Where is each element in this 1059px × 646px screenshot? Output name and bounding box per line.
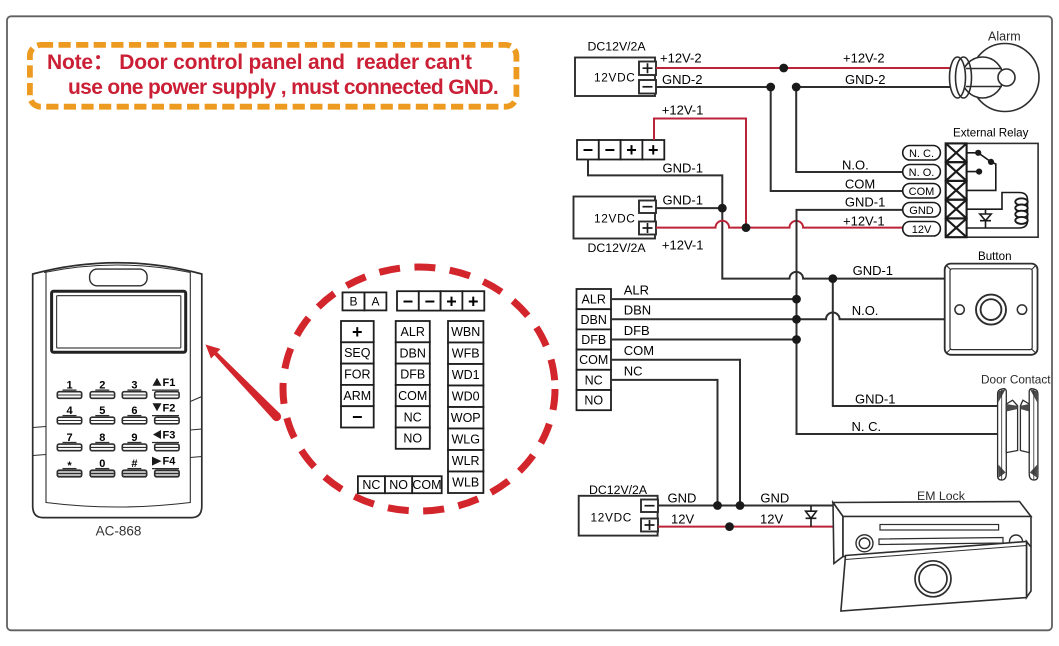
svg-text:12VDC: 12VDC — [591, 511, 633, 525]
wire GND-2 to relay COM — [771, 87, 903, 191]
svg-text:COM: COM — [412, 478, 441, 492]
wire +12V-2 red — [656, 67, 950, 69]
svg-text:Alarm: Alarm — [988, 30, 1021, 44]
svg-text:NC: NC — [362, 478, 380, 492]
svg-text:NO: NO — [403, 432, 422, 446]
junction dot lock GND NC — [713, 501, 722, 510]
power supply U2 12VDC box — [575, 40, 656, 97]
svg-text:NO: NO — [389, 478, 408, 492]
svg-text:WOP: WOP — [451, 411, 481, 425]
keypad left side ticks — [33, 427, 46, 456]
svg-text:DFB: DFB — [581, 333, 606, 347]
door contact switch plate — [998, 389, 1007, 480]
svg-text:GND-1: GND-1 — [855, 392, 895, 407]
key hash — [122, 458, 146, 477]
wire NC to lock GND — [611, 380, 718, 506]
svg-text:GND: GND — [909, 205, 934, 217]
junction dot GND-2 left — [766, 83, 775, 92]
svg-text:FOR: FOR — [344, 368, 370, 382]
junction dot +12V-1 — [742, 223, 751, 232]
key F4 right-arrow — [152, 456, 179, 477]
junction dot +12V-2 — [779, 64, 788, 73]
svg-text:GND-2: GND-2 — [845, 72, 885, 87]
svg-text:WFB: WFB — [452, 347, 480, 361]
svg-text:WLG: WLG — [451, 433, 479, 447]
relay diode — [980, 209, 991, 228]
lock screw right — [1010, 535, 1023, 548]
lock armature side face — [1027, 542, 1032, 598]
power supply U1 12VDC box — [574, 197, 657, 256]
svg-text:WLB: WLB — [452, 476, 479, 490]
svg-text:DFB: DFB — [624, 323, 650, 338]
U2 minus terminal — [639, 80, 656, 94]
svg-text:F1: F1 — [163, 377, 176, 389]
wire button GND-1 to door contact — [833, 279, 997, 406]
wire reader GND-1 — [588, 160, 722, 209]
dashed red highlight circle — [283, 267, 555, 511]
svg-text:+12V-1: +12V-1 — [662, 238, 704, 253]
terminal column plus SEQ FOR ARM minus — [341, 321, 374, 428]
junction dot DBN — [792, 315, 801, 324]
relay oval terminal NO — [903, 165, 941, 180]
U3 plus terminal — [641, 519, 658, 532]
junction dot lock 12V — [725, 522, 734, 531]
svg-text:−: − — [352, 407, 363, 427]
key 4 — [57, 405, 81, 424]
wire GND-1 down to button — [722, 208, 944, 279]
svg-text:+: + — [468, 291, 479, 311]
svg-text:12V: 12V — [912, 224, 932, 236]
wire DFB junction — [611, 339, 797, 341]
relay coil windings — [1015, 198, 1027, 224]
svg-text:−: − — [583, 140, 594, 160]
key F2 down-arrow — [152, 402, 179, 424]
alarm bell — [950, 30, 1040, 112]
svg-text:COM: COM — [909, 186, 935, 198]
wire U1 GND-1 — [656, 207, 722, 209]
keypad speaker slot — [90, 269, 148, 286]
keypad bottom inner arc — [46, 503, 190, 508]
key 9 — [122, 432, 146, 451]
key F3 left-arrow — [152, 430, 179, 451]
svg-text:COM: COM — [398, 389, 427, 403]
key 6 — [122, 405, 146, 424]
svg-text:EM Lock: EM Lock — [917, 489, 966, 503]
wire GND-2 left segment — [656, 86, 771, 88]
key 8 — [90, 432, 114, 451]
U1 plus terminal — [639, 222, 656, 235]
svg-text:NC: NC — [585, 373, 603, 387]
terminal column ALR DBN DFB COM NC NO — [396, 321, 430, 449]
relay terminal X cells — [946, 143, 967, 237]
junction dot DFB — [792, 335, 801, 344]
svg-text:GND-1: GND-1 — [663, 161, 703, 176]
keypad left panel seam — [45, 271, 47, 504]
svg-text:−: − — [604, 140, 615, 160]
terminal block B A — [343, 292, 387, 310]
svg-text:A: A — [371, 295, 379, 309]
door contact magnet plate — [1029, 389, 1038, 480]
key 3 — [122, 380, 146, 399]
red callout arrow shaft — [213, 351, 280, 420]
svg-text:Button: Button — [978, 250, 1012, 263]
key 1 — [57, 380, 81, 399]
svg-text:GND-1: GND-1 — [663, 193, 703, 208]
lock magnet front face — [843, 517, 1031, 557]
svg-text:+: + — [626, 140, 637, 160]
svg-text:Note： Door control panel and: Note： Door control panel and reader can'… — [47, 51, 472, 74]
svg-text:N.O.: N.O. — [842, 158, 869, 173]
power supply U3 12VDC box — [579, 483, 658, 536]
svg-text:WD0: WD0 — [452, 390, 480, 404]
wire U1 +12V-1 red to relay 12V — [656, 221, 903, 228]
wire COM to lock GND — [611, 360, 740, 506]
U1 minus terminal — [639, 201, 656, 214]
key 5 — [90, 405, 114, 424]
svg-text:N. C.: N. C. — [909, 148, 934, 160]
svg-text:NC: NC — [404, 410, 422, 424]
key F1 up-arrow — [152, 377, 179, 399]
relay switch contacts — [967, 153, 996, 191]
door contact magnet body — [1020, 400, 1029, 452]
svg-text:AC-868: AC-868 — [96, 524, 142, 539]
svg-text:12VDC: 12VDC — [594, 71, 636, 85]
svg-text:ALR: ALR — [582, 293, 606, 307]
svg-text:+: + — [446, 291, 457, 311]
wire U3 GND to EM lock — [658, 505, 838, 507]
lock slot upper — [880, 525, 999, 531]
svg-text:+12V-2: +12V-2 — [660, 51, 702, 66]
svg-text:COM: COM — [579, 353, 608, 367]
wire reader +12V-1 red riser — [654, 119, 746, 228]
door contact switch body — [1006, 400, 1017, 452]
keypad display outer — [52, 291, 186, 352]
svg-text:F2: F2 — [163, 402, 176, 414]
svg-text:+12V-1: +12V-1 — [662, 103, 704, 118]
svg-text:DFB: DFB — [400, 368, 425, 382]
svg-text:DC12V/2A: DC12V/2A — [588, 241, 647, 255]
relay oval terminal COM — [903, 184, 941, 199]
lock armature circle — [915, 561, 951, 597]
svg-text:Door Contact: Door Contact — [981, 373, 1051, 387]
wire ALR — [611, 298, 797, 300]
svg-text:WLR: WLR — [452, 454, 480, 468]
terminal column WBN..WLB — [448, 321, 483, 493]
note box dashed border — [30, 45, 517, 107]
wire relay GND to controller — [797, 210, 998, 434]
keypad right panel seam — [189, 271, 191, 504]
svg-text:GND: GND — [760, 491, 789, 506]
svg-text:N. O.: N. O. — [909, 167, 935, 179]
svg-text:12VDC: 12VDC — [594, 212, 636, 226]
wire GND-2 right segment to alarm — [796, 86, 950, 88]
svg-text:+12V-1: +12V-1 — [843, 214, 885, 229]
keypad right side ticks — [190, 397, 202, 458]
svg-text:NO: NO — [584, 394, 603, 408]
svg-text:DC12V/2A: DC12V/2A — [589, 483, 648, 497]
lock slot lower — [879, 538, 1003, 545]
svg-text:GND-1: GND-1 — [853, 263, 893, 278]
wire alarm to relay NO — [796, 87, 903, 172]
U3 minus terminal — [641, 500, 658, 513]
terminal row NC NO COM — [358, 476, 442, 493]
lock magnet top face — [833, 502, 1031, 517]
svg-text:+: + — [352, 322, 363, 342]
svg-text:COM: COM — [624, 343, 654, 358]
relay oval terminal NC — [903, 146, 941, 161]
lock magnet left face — [833, 503, 843, 564]
relay oval terminal 12V — [903, 222, 941, 237]
svg-text:F3: F3 — [163, 430, 176, 442]
junction dot lock GND COM — [736, 501, 745, 510]
svg-text:External Relay: External Relay — [953, 127, 1029, 140]
svg-text:B: B — [349, 295, 357, 309]
lock screw left — [856, 535, 873, 552]
key 0 — [90, 458, 114, 477]
terminal block minus minus plus plus — [397, 291, 484, 311]
svg-text:F4: F4 — [163, 456, 177, 468]
svg-text:ALR: ALR — [624, 283, 649, 298]
svg-text:ARM: ARM — [343, 389, 371, 403]
svg-text:N.O.: N.O. — [852, 303, 879, 318]
keypad top bezel arc — [44, 265, 191, 273]
junction dot GND-2 right — [792, 83, 801, 92]
door contact — [981, 373, 1051, 481]
svg-text:DBN: DBN — [624, 303, 651, 318]
svg-text:ALR: ALR — [401, 325, 425, 339]
relay coil circuit — [967, 193, 1028, 229]
wire U3 12V red to EM lock — [658, 526, 838, 528]
svg-text:+: + — [648, 140, 659, 160]
relay box — [946, 143, 1038, 237]
svg-text:N. C.: N. C. — [852, 419, 882, 434]
exit button — [945, 250, 1038, 355]
external relay — [903, 127, 1038, 238]
flyback diode at EM lock — [806, 506, 817, 527]
svg-text:12V: 12V — [760, 512, 783, 527]
lock armature plate — [841, 542, 1027, 612]
svg-text:GND: GND — [668, 491, 697, 506]
reader terminal block minus minus plus plus — [577, 140, 664, 160]
relay oval terminal GND — [903, 203, 941, 218]
keypad display inner — [57, 296, 181, 348]
svg-text:GND-2: GND-2 — [662, 72, 702, 87]
junction dot ALR — [792, 295, 801, 304]
svg-text:WBN: WBN — [451, 325, 480, 339]
keypad AC-868 body outline — [33, 263, 202, 518]
key 7 — [57, 432, 81, 451]
svg-text:+12V-2: +12V-2 — [843, 51, 885, 66]
wire DBN to button NO — [611, 313, 945, 320]
svg-text:DC12V/2A: DC12V/2A — [588, 40, 647, 54]
EM lock — [833, 489, 1031, 611]
key 2 — [90, 380, 114, 399]
svg-text:GND-1: GND-1 — [845, 195, 885, 210]
svg-text:−: − — [424, 291, 435, 311]
junction dot GND-1 — [718, 204, 727, 213]
svg-text:12V: 12V — [671, 512, 694, 527]
U2 plus terminal — [639, 62, 656, 76]
svg-text:NC: NC — [624, 364, 643, 379]
svg-text:DBN: DBN — [399, 346, 425, 360]
svg-text:SEQ: SEQ — [344, 346, 371, 360]
key star — [57, 460, 81, 477]
svg-text:DBN: DBN — [580, 313, 606, 327]
junction dot GND-1 button — [828, 274, 837, 283]
svg-text:−: − — [403, 291, 414, 311]
svg-text:COM: COM — [845, 177, 875, 192]
red callout arrow head — [206, 345, 221, 359]
svg-text:WD1: WD1 — [452, 368, 480, 382]
controller terminal column ALR DBN DFB COM NC NO — [577, 289, 612, 410]
svg-text:use one power supply , must co: use one power supply , must connected GN… — [68, 76, 498, 99]
